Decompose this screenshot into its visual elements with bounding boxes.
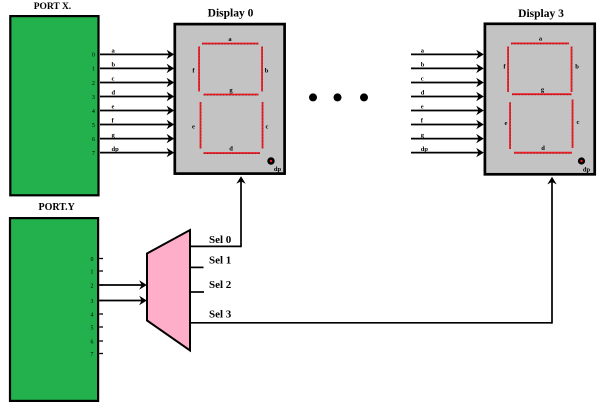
svg-text:7: 7	[91, 352, 94, 358]
svg-text:c: c	[112, 76, 115, 83]
svg-text:b: b	[575, 64, 579, 71]
svg-text:Sel 2: Sel 2	[209, 279, 232, 291]
svg-text:Display 3: Display 3	[518, 8, 564, 20]
svg-text:e: e	[505, 120, 508, 127]
svg-text:d: d	[112, 90, 116, 97]
svg-text:dp: dp	[112, 146, 120, 153]
svg-text:3: 3	[91, 299, 94, 305]
svg-text:dp: dp	[421, 146, 429, 153]
svg-text:7: 7	[92, 151, 95, 157]
svg-text:0: 0	[91, 257, 94, 263]
svg-text:3: 3	[92, 95, 95, 101]
svg-text:1: 1	[91, 269, 94, 275]
svg-text:dp: dp	[274, 166, 282, 173]
svg-text:dp: dp	[583, 167, 591, 174]
svg-text:e: e	[421, 104, 424, 111]
svg-text:Sel 3: Sel 3	[209, 309, 232, 321]
svg-text:5: 5	[92, 123, 95, 129]
svg-text:b: b	[265, 68, 269, 75]
svg-text:1: 1	[92, 67, 95, 73]
svg-text:d: d	[541, 145, 545, 152]
svg-text:6: 6	[91, 339, 94, 345]
svg-text:2: 2	[91, 283, 94, 289]
svg-text:e: e	[112, 104, 115, 111]
svg-text:0: 0	[92, 53, 95, 59]
svg-text:Sel 0: Sel 0	[209, 234, 232, 246]
svg-text:c: c	[577, 119, 580, 126]
svg-text:e: e	[192, 124, 195, 131]
svg-text:Display 0: Display 0	[208, 8, 254, 20]
svg-text:5: 5	[91, 325, 94, 331]
svg-text:PORT X.: PORT X.	[34, 2, 71, 12]
svg-text:d: d	[229, 146, 233, 153]
svg-text:c: c	[266, 124, 269, 131]
svg-text:2: 2	[92, 81, 95, 87]
svg-text:b: b	[112, 62, 116, 69]
svg-text:PORT.Y: PORT.Y	[39, 202, 76, 213]
svg-text:Sel 1: Sel 1	[209, 254, 231, 266]
svg-text:4: 4	[91, 312, 94, 318]
svg-text:6: 6	[92, 137, 95, 143]
svg-text:4: 4	[92, 109, 95, 115]
svg-text:c: c	[421, 76, 424, 83]
svg-text:b: b	[421, 62, 425, 69]
svg-text:d: d	[421, 90, 425, 97]
